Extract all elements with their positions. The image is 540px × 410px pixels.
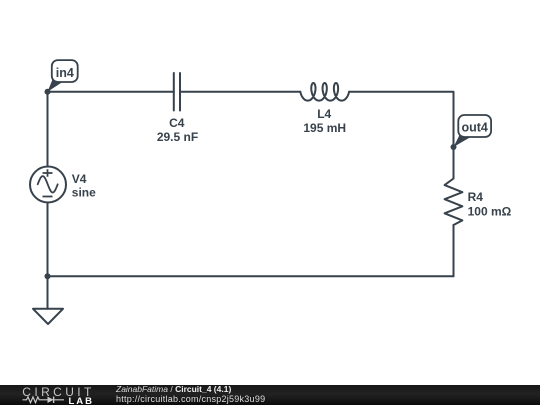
logo schematic squiggle: wire + resistor bbox=[23, 397, 65, 403]
wire ground stem bbox=[47, 276, 49, 309]
wire out4 node down to R4 top bbox=[453, 147, 455, 179]
footer attribution text bbox=[116, 385, 265, 404]
capacitor C4 left plate bbox=[173, 73, 175, 111]
wire L4 right terminal to top-right corner and down to out4 node bbox=[349, 92, 453, 147]
wire C4 right plate to L4 left terminal bbox=[180, 91, 300, 93]
inductor L4 coil bbox=[300, 83, 349, 101]
V4 plus sign bbox=[43, 169, 53, 177]
ground symbol triangle bbox=[33, 309, 63, 324]
svg-text:C4: C4 bbox=[169, 116, 185, 130]
capacitor C4 right plate bbox=[179, 73, 181, 111]
svg-text:R4: R4 bbox=[468, 190, 484, 204]
svg-text:V4: V4 bbox=[72, 172, 87, 186]
node dot ground junction bbox=[45, 273, 51, 279]
node dot in4 bbox=[45, 89, 51, 95]
flag out4 tail bbox=[454, 135, 472, 148]
svg-text:29.5 nF: 29.5 nF bbox=[157, 130, 198, 144]
wire R4 bottom to bottom-right corner bbox=[453, 225, 455, 276]
voltage source V4 circle bbox=[30, 167, 66, 203]
svg-text:L4: L4 bbox=[317, 107, 331, 121]
svg-text:LAB: LAB bbox=[69, 396, 95, 405]
flag in4 bubble bbox=[52, 60, 78, 82]
V4 minus sign bbox=[43, 196, 53, 198]
flag in4 tail bbox=[48, 80, 63, 92]
flag out4 bubble bbox=[458, 115, 491, 137]
svg-text:195 mH: 195 mH bbox=[303, 121, 346, 135]
svg-text:in4: in4 bbox=[56, 66, 74, 80]
wire top-left horizontal (node in4 to C4 left plate) bbox=[48, 91, 174, 93]
footer bar bbox=[0, 385, 540, 405]
wire left vertical above V4 (in4 node to V4 top) bbox=[47, 92, 49, 166]
resistor R4 zigzag bbox=[445, 179, 463, 226]
wire bottom horizontal bbox=[48, 275, 454, 277]
node dot out4 bbox=[451, 144, 457, 150]
logo diode triangle bbox=[48, 397, 54, 403]
V4 sine waveform bbox=[38, 176, 58, 192]
svg-text:out4: out4 bbox=[462, 121, 488, 135]
svg-text:100 mΩ: 100 mΩ bbox=[468, 204, 512, 218]
CircuitLab logo bbox=[0, 385, 110, 405]
wire left vertical below V4 bbox=[47, 203, 49, 276]
logo diode bar bbox=[53, 397, 55, 403]
svg-text:sine: sine bbox=[72, 186, 96, 200]
